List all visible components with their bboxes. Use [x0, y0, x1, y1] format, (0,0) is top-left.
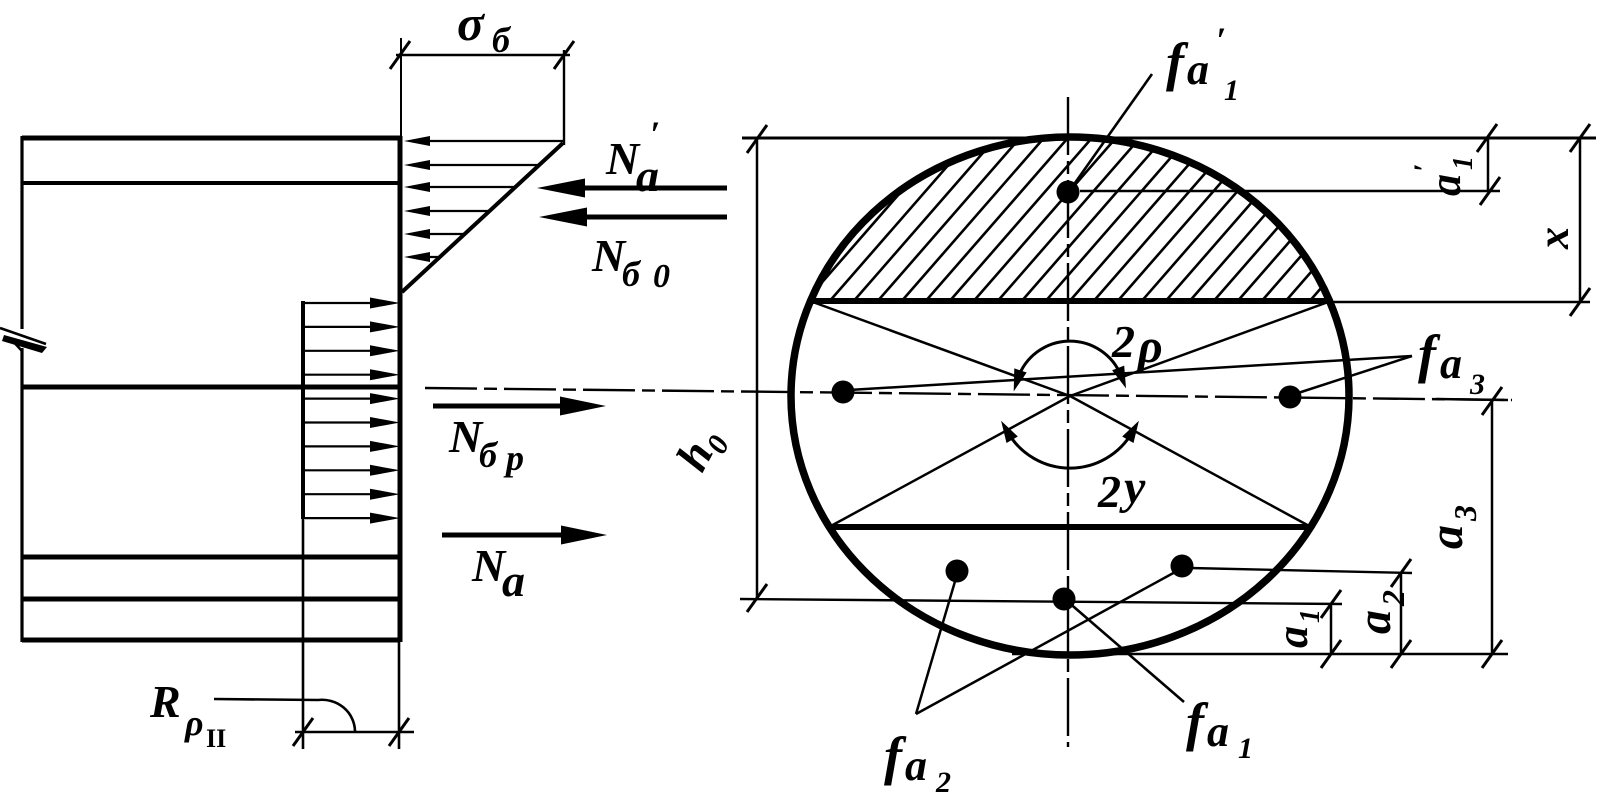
svg-text:′: ′ — [1216, 20, 1226, 60]
Rp dim extension right — [398, 642, 401, 749]
label x (rotated) — [1529, 227, 1578, 250]
svg-text:2: 2 — [1097, 466, 1121, 517]
force arrow Na — [442, 533, 579, 538]
compression stress arrows (6, pointing left) — [420, 140, 563, 142]
fa3 leader to right dot — [1295, 356, 1412, 394]
a1 extension line (h0 level) — [740, 599, 1342, 604]
a2 top tick — [1391, 559, 1411, 587]
top dim tick at h0 line — [747, 125, 767, 153]
horizontal centre axis (dash-dot) — [425, 388, 1512, 400]
a2 dimension line — [1400, 573, 1403, 654]
label a1 (rotated) — [1268, 609, 1326, 648]
left rebar dot fa3 — [832, 381, 855, 404]
lower chord — [829, 524, 1311, 530]
svg-text:σ: σ — [457, 0, 486, 51]
bottom tick a3 — [1482, 640, 1502, 668]
prestress block arrows (10, pointing right) — [305, 302, 382, 304]
lower-left rebar dot fa2 — [946, 560, 969, 583]
svg-text:б: б — [479, 435, 499, 475]
force arrow N'a — [566, 186, 727, 191]
a1 dimension line — [1330, 604, 1333, 654]
svg-text:a: a — [905, 741, 927, 790]
beam break mark — [0, 328, 46, 344]
tension block left extension line — [302, 519, 305, 749]
svg-text:3: 3 — [1447, 505, 1483, 522]
svg-text:ρ: ρ — [1136, 320, 1163, 373]
beam left edge lower segment — [20, 348, 23, 642]
a'1 short dimension line — [1487, 138, 1490, 192]
h0 bottom tick — [747, 584, 767, 612]
svg-text:y: y — [1119, 461, 1146, 514]
svg-text:2: 2 — [935, 766, 951, 793]
sigma_b dim tick right — [554, 41, 574, 69]
svg-text:б: б — [492, 20, 512, 60]
stress trapezoid slope line — [402, 143, 563, 292]
top dimension line — [742, 137, 1596, 140]
h0 dimension line — [756, 138, 759, 598]
Rp dimension line — [295, 731, 414, 734]
ray to lower-right chord end — [1070, 396, 1311, 527]
svg-text:a: a — [1348, 610, 1401, 634]
a3 dimension line — [1491, 401, 1494, 654]
bottom tick a1 — [1321, 640, 1341, 668]
beam bottom flange line 2 — [22, 597, 400, 602]
fa3 leader to left dot — [849, 356, 1412, 390]
ray to upper-left chord end — [810, 301, 1070, 396]
svg-text:a: a — [1420, 525, 1473, 549]
beam left edge upper segment — [20, 136, 23, 329]
bottom rebar dot fa1 — [1053, 588, 1076, 611]
fa'1 leader line — [1070, 74, 1152, 190]
angle arc 2y — [1008, 432, 1133, 468]
beam top flange inner line — [22, 181, 400, 185]
svg-text:3: 3 — [1469, 368, 1485, 401]
svg-text:1: 1 — [1238, 732, 1253, 765]
chord extension line right — [1331, 301, 1590, 303]
label h0 — [666, 419, 736, 482]
sigma_b dimension line — [396, 54, 570, 56]
fa2 leader to lower-right dot — [916, 571, 1177, 714]
compression chord — [810, 298, 1331, 304]
beam bottom edge — [22, 638, 400, 643]
svg-text:2: 2 — [1111, 316, 1135, 367]
Rp leader line — [214, 699, 355, 731]
ray to upper-right chord end — [1070, 301, 1331, 396]
a3 extension line segment — [1436, 399, 1508, 400]
sigma_b extension line left — [400, 38, 402, 136]
svg-text:x: x — [1529, 227, 1578, 250]
right rebar dot fa3 — [1279, 386, 1302, 409]
sigma_b dim tick left — [390, 41, 410, 69]
svg-text:1: 1 — [1448, 156, 1479, 170]
a'1 dim tick — [1480, 177, 1500, 205]
svg-text:2: 2 — [1375, 590, 1411, 607]
svg-text:II: II — [206, 724, 226, 753]
svg-text:a: a — [1268, 626, 1317, 648]
section cut line — [398, 136, 403, 642]
beam top edge — [22, 136, 400, 141]
sigma_b extension line right — [563, 50, 565, 145]
top rebar dot fa'1 — [1057, 181, 1080, 204]
svg-text:1: 1 — [1224, 74, 1239, 107]
bottom tick a2 — [1391, 640, 1411, 668]
svg-text:′: ′ — [1408, 164, 1441, 172]
circular section outline — [791, 137, 1349, 655]
fa1 leader line — [1067, 601, 1184, 702]
vertical centre line (dash-dot) — [1067, 97, 1069, 747]
svg-text:0: 0 — [653, 258, 670, 295]
beam mid (axis level) line — [22, 385, 400, 390]
tension block left edge — [301, 301, 305, 519]
lower-right rebar dot fa2 — [1171, 555, 1194, 578]
Rp dim tick left — [293, 718, 313, 746]
svg-text:a: a — [1187, 45, 1209, 94]
a1 top tick — [1321, 590, 1341, 618]
top dim tick at x line — [1570, 124, 1590, 152]
beam bottom flange line 1 — [22, 555, 400, 560]
svg-text:R: R — [149, 676, 181, 727]
svg-text:б: б — [622, 254, 642, 294]
x dim tick at chord level — [1570, 288, 1590, 316]
a3 top tick — [1482, 387, 1502, 415]
svg-text:a: a — [1440, 339, 1462, 388]
svg-text:1: 1 — [1295, 609, 1326, 623]
force arrow Nbr — [433, 404, 578, 409]
label a2 (rotated) — [1348, 590, 1411, 634]
a2 extension line — [1190, 568, 1412, 573]
top dim tick at a'1 line — [1477, 124, 1497, 152]
ray to lower-left chord end — [829, 396, 1070, 527]
Rp dim tick right — [389, 718, 409, 746]
svg-text:a: a — [502, 555, 525, 606]
force arrow Nbo — [568, 215, 727, 220]
label a3 (rotated) — [1420, 505, 1483, 549]
bottom dimension line — [1012, 653, 1508, 656]
angle arc 2rho — [1018, 341, 1122, 379]
svg-text:′: ′ — [650, 114, 660, 154]
label a'1 (rotated) — [1408, 156, 1479, 196]
svg-text:a: a — [1207, 707, 1229, 756]
fa2 leader to lower-left dot — [916, 578, 956, 714]
x dimension line — [1579, 138, 1582, 302]
svg-text:р: р — [503, 438, 524, 478]
svg-text:a: a — [1421, 174, 1470, 196]
svg-text:a: a — [636, 150, 659, 201]
svg-text:ρ: ρ — [184, 703, 204, 743]
a'1 extension line at top dot level — [1080, 190, 1500, 192]
